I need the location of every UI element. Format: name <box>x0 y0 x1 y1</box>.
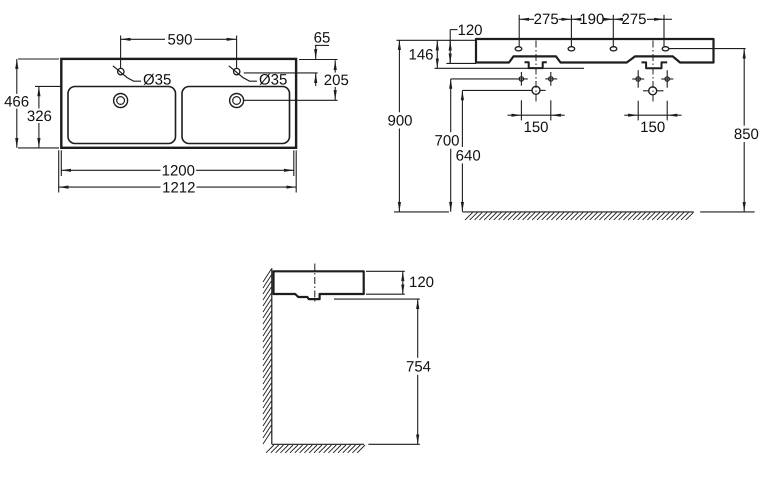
svg-text:120: 120 <box>409 274 434 291</box>
svg-text:146: 146 <box>408 47 433 64</box>
svg-text:466: 466 <box>4 93 29 110</box>
svg-text:120: 120 <box>457 22 482 39</box>
svg-text:1212: 1212 <box>162 179 195 196</box>
svg-text:1200: 1200 <box>162 163 195 180</box>
svg-text:640: 640 <box>456 147 481 164</box>
svg-text:Ø35: Ø35 <box>259 72 287 89</box>
svg-text:205: 205 <box>324 72 349 89</box>
svg-text:190: 190 <box>579 11 604 28</box>
svg-text:150: 150 <box>640 119 665 136</box>
svg-text:Ø35: Ø35 <box>143 72 171 89</box>
svg-text:275: 275 <box>534 11 559 28</box>
svg-text:900: 900 <box>387 113 412 130</box>
svg-text:850: 850 <box>734 126 759 143</box>
svg-text:326: 326 <box>27 108 52 125</box>
svg-text:754: 754 <box>406 358 431 375</box>
svg-text:65: 65 <box>314 30 331 47</box>
svg-text:150: 150 <box>523 119 548 136</box>
svg-text:275: 275 <box>621 11 646 28</box>
svg-text:590: 590 <box>167 31 192 48</box>
